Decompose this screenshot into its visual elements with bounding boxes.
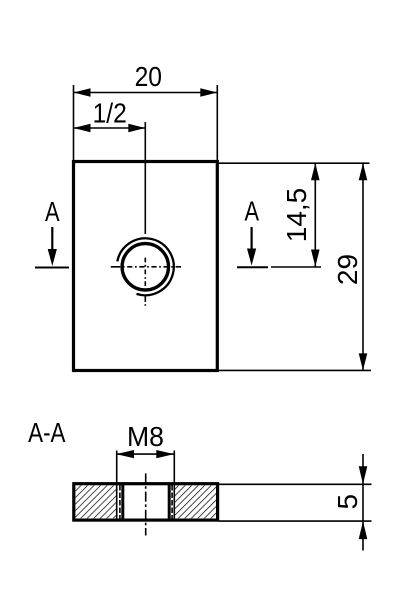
dimension 20 [74, 61, 218, 161]
dimension 29 [219, 163, 372, 370]
svg-text:20: 20 [135, 61, 162, 93]
svg-text:14,5: 14,5 [281, 188, 312, 243]
dimension 5 [219, 454, 372, 551]
thread major diameter arc [117, 238, 173, 295]
section body outline [74, 484, 218, 520]
top view plate outline [74, 162, 218, 371]
tapped hole minor diameter circle [122, 244, 168, 290]
vertical centerline of hole (top view) [144, 122, 146, 306]
thread major diameter lines (section, also M8 extension lines) [117, 451, 175, 520]
dimension M8 [116, 421, 174, 459]
svg-text:A-A: A-A [28, 418, 65, 449]
dimension 1/2 [74, 97, 146, 132]
svg-text:A: A [45, 196, 60, 227]
hole wall minor diameter lines (section) [123, 484, 169, 520]
svg-text:5: 5 [332, 494, 363, 510]
horizontal centerline of hole (top view) [111, 266, 181, 268]
hatching right [174, 486, 216, 519]
svg-text:1/2: 1/2 [93, 97, 127, 129]
svg-text:A: A [245, 196, 260, 227]
thread dashed lines (section) [120, 485, 172, 519]
dimension 14,5 [219, 163, 370, 267]
svg-text:M8: M8 [127, 421, 164, 453]
section marker A (right) [237, 196, 268, 267]
svg-text:29: 29 [332, 254, 363, 285]
section marker A (left) [35, 196, 69, 267]
section centerline [145, 473, 147, 535]
hatching left [75, 486, 116, 519]
